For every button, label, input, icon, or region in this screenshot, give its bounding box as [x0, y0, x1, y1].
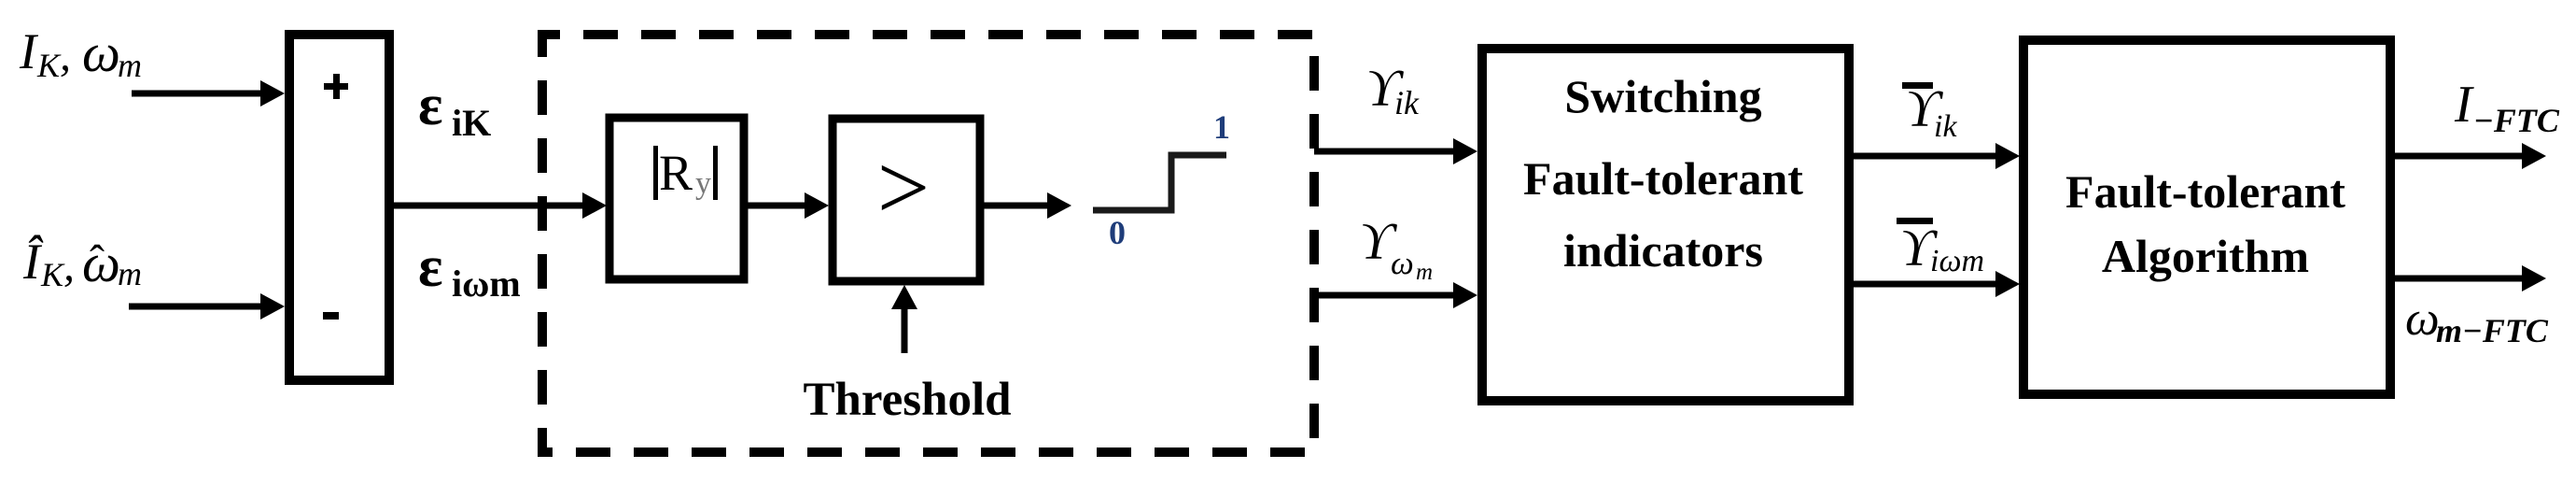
svg-text:iωm: iωm — [1930, 244, 1984, 278]
node label Upsilon_ik bar — [1902, 80, 1957, 144]
svg-text:iK: iK — [452, 102, 491, 144]
svg-text:ε: ε — [418, 74, 443, 137]
svg-text:m: m — [1416, 260, 1433, 285]
svg-text:K: K — [36, 47, 62, 84]
fault detection dashed box — [542, 35, 1314, 452]
svg-text:y: y — [695, 166, 711, 201]
svg-text:m−FTC: m−FTC — [2436, 312, 2549, 349]
svg-text:K: K — [40, 256, 65, 293]
wire input arrow top into summing junction — [132, 80, 285, 107]
svg-text:Threshold: Threshold — [804, 374, 1012, 426]
svg-text:0: 0 — [1109, 214, 1126, 251]
block switching fault-tolerant indicators — [1482, 49, 1849, 401]
block fault-tolerant algorithm — [2023, 40, 2390, 394]
svg-text:m: m — [118, 47, 142, 84]
svg-text:Fault-tolerant: Fault-tolerant — [1523, 152, 1803, 205]
block threshold comparator > — [833, 119, 980, 281]
svg-text:Algorithm: Algorithm — [2102, 230, 2309, 282]
summing junction comparator block — [289, 35, 389, 380]
node label omega_m-FTC — [2405, 292, 2549, 349]
svg-text:Fault-tolerant: Fault-tolerant — [2065, 165, 2345, 218]
node label Upsilon_ik — [1366, 60, 1420, 121]
svg-text:,: , — [60, 31, 71, 80]
svg-text:R: R — [659, 145, 693, 201]
node label 0 — [1109, 214, 1126, 251]
svg-text:ik: ik — [1394, 84, 1420, 121]
wire switching block to fault-tolerant algorithm bottom — [1851, 271, 2020, 297]
wire input arrow bottom into summing junction — [129, 293, 285, 320]
wire output I_FTC — [2393, 143, 2546, 169]
svg-text:m: m — [118, 255, 142, 292]
svg-text:1: 1 — [1213, 108, 1230, 146]
svg-text:ω: ω — [82, 22, 120, 83]
svg-text:,: , — [63, 241, 75, 291]
wire residual output from summing junction to |Ry| block — [394, 192, 607, 219]
node label epsilon_iwm — [418, 235, 521, 305]
step function symbol — [1093, 155, 1226, 210]
node label I_-FTC — [2454, 76, 2560, 139]
svg-text:ˆ: ˆ — [90, 236, 105, 286]
svg-text:>: > — [877, 135, 930, 239]
svg-text:Switching: Switching — [1564, 70, 1761, 122]
svg-text:ε: ε — [418, 235, 443, 299]
node label Threshold — [804, 374, 1012, 426]
wire indicator bottom out of dashed box to switching block — [1314, 282, 1477, 308]
node input label I_K hat, omega_m hat — [22, 233, 142, 293]
svg-text:I: I — [2454, 76, 2474, 134]
svg-text:ω: ω — [1391, 245, 1414, 281]
wire threshold arrow into comparator — [891, 285, 917, 353]
svg-text:−FTC: −FTC — [2473, 102, 2560, 139]
node input label I_K, omega_m — [19, 22, 142, 84]
node label Upsilon_iwm bar — [1897, 218, 1984, 278]
svg-text:ω: ω — [2405, 292, 2440, 346]
svg-text:I: I — [19, 23, 39, 79]
wire indicator top out of dashed box to switching block — [1314, 138, 1477, 164]
svg-text:ik: ik — [1934, 109, 1957, 144]
block |Ry| residual norm — [609, 118, 744, 279]
wire switching block to fault-tolerant algorithm top — [1851, 143, 2020, 169]
wire output omega_m_FTC — [2393, 265, 2546, 291]
node label epsilon_iK — [418, 74, 491, 144]
wire |Ry| to comparator block — [748, 192, 829, 219]
node label Upsilon_wm — [1360, 213, 1433, 285]
node label 1 — [1213, 108, 1230, 146]
svg-text:indicators: indicators — [1563, 224, 1763, 277]
svg-text:iωm: iωm — [452, 263, 521, 305]
wire comparator to step function — [984, 192, 1071, 219]
